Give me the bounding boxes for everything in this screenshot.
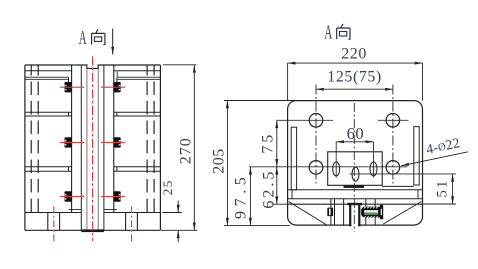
bottom section line 1 xyxy=(382,185,414,187)
top cap lower line xyxy=(25,70,161,72)
center column outer lines xyxy=(72,65,114,213)
svg-text:75: 75 xyxy=(260,132,277,154)
base top line xyxy=(25,212,161,214)
dim 60 line xyxy=(336,141,373,143)
dim 205 extension top xyxy=(224,100,296,102)
dim 125(75) line xyxy=(316,88,393,90)
dim 75 line xyxy=(276,120,278,167)
bolt axis row2 (red) xyxy=(60,141,125,143)
upper clamp plate lines xyxy=(25,77,161,79)
svg-text:A: A xyxy=(324,22,332,43)
green mark right column xyxy=(116,71,118,79)
svg-text:125(75): 125(75) xyxy=(327,68,382,85)
bolt row3 right xyxy=(113,191,120,201)
green mark top xyxy=(74,64,77,66)
bolt row2 left xyxy=(65,137,72,147)
clamp bolt left (small) xyxy=(327,208,333,217)
bottom verticals right xyxy=(366,199,375,225)
base cutout right xyxy=(126,213,138,231)
dim 25 arrow top xyxy=(177,201,179,213)
left view frame right edge xyxy=(159,65,161,230)
bolt row3 left xyxy=(65,191,72,201)
dim 205 line xyxy=(226,101,228,226)
middle rail pair 2 xyxy=(25,167,161,171)
channel slot white gap xyxy=(351,205,358,230)
dim 51 extension bottom xyxy=(423,203,457,205)
dim 205 extension bottom xyxy=(224,225,290,227)
oval slot middle xyxy=(352,167,359,181)
winding dashed lines left block xyxy=(31,65,38,213)
dim 220 line xyxy=(288,62,423,64)
channel right wall (thick) xyxy=(358,205,360,227)
main vertical centerline xyxy=(353,103,355,232)
dim 25 extension xyxy=(162,212,182,214)
rail 2 end ticks xyxy=(69,167,117,171)
hole column centerline right xyxy=(392,85,394,184)
hole circle bottom-right xyxy=(386,161,400,175)
svg-text:62.5: 62.5 xyxy=(261,169,278,209)
dim 62.5 line xyxy=(276,167,278,204)
base cutout left xyxy=(48,213,60,231)
svg-text:97.5: 97.5 xyxy=(233,173,250,219)
bottom verticals left xyxy=(331,199,344,225)
view direction arrow xyxy=(112,29,114,55)
center column core lines xyxy=(87,68,98,230)
oval slot right xyxy=(370,162,377,176)
gusset diagonal left xyxy=(289,202,327,226)
bottom section line 4 xyxy=(288,203,423,205)
hole circle top-right xyxy=(386,114,400,128)
dim 270 extension top xyxy=(163,64,197,66)
leader 4-diam22 xyxy=(401,152,468,166)
bolt row1 left xyxy=(65,82,72,92)
upper clamp end ticks xyxy=(69,77,117,82)
terminal block bottom tab xyxy=(344,185,365,188)
oval centerline right xyxy=(373,142,375,178)
terminal block rectangle xyxy=(328,152,383,186)
bolt axis row1 (red) xyxy=(60,86,125,88)
gusset diagonal right xyxy=(383,202,421,225)
hole circle top-left xyxy=(309,114,323,128)
top cap line xyxy=(25,65,161,68)
svg-text:25: 25 xyxy=(160,179,175,195)
winding dashed lines right block xyxy=(147,65,154,213)
leader text 4-d22 xyxy=(425,136,462,158)
bottom section line 3 xyxy=(288,198,423,200)
hole row2 centerline xyxy=(249,166,408,168)
main centerline (red) xyxy=(92,56,94,241)
channel top bar (thick) xyxy=(347,203,362,205)
dim 220 extension left xyxy=(287,63,289,101)
bolt ledges xyxy=(69,209,117,211)
rail 1 end ticks xyxy=(69,112,117,116)
hole circle bottom-left xyxy=(309,161,323,175)
left slot xyxy=(291,127,296,190)
oval centerline left xyxy=(335,142,337,178)
svg-text:205: 205 xyxy=(211,148,228,174)
bolt row1 right xyxy=(113,82,120,92)
bolt row2 right xyxy=(113,137,120,147)
center column inner lines xyxy=(81,65,104,230)
right slot xyxy=(414,127,419,185)
bolt axis row3 (red) xyxy=(60,196,125,198)
middle rail pair 1 xyxy=(25,112,161,116)
short verticals below slots xyxy=(292,190,418,199)
base bottom line xyxy=(25,229,161,231)
channel left wall (thick) xyxy=(349,205,351,227)
clamp bolt right (green terminal) xyxy=(361,205,383,220)
dim 25 arrow bottom xyxy=(177,230,179,242)
label A向 (left view direction label) xyxy=(79,28,105,49)
dim 270 line xyxy=(193,65,195,231)
hole row1 centerline xyxy=(276,119,408,121)
label A向 (view A title) xyxy=(324,22,350,43)
base cutout centerline left (red) xyxy=(53,206,55,242)
dim 97.5 line xyxy=(249,167,251,226)
middle slot centerline xyxy=(350,173,457,175)
left view frame left edge xyxy=(24,65,26,230)
dim 62.5 extension bottom xyxy=(272,203,289,205)
svg-text:60: 60 xyxy=(347,124,365,143)
dim 220 extension right xyxy=(422,63,424,101)
dim 51 line xyxy=(452,174,454,204)
body outline (rounded) xyxy=(288,101,423,226)
base foot bar under column xyxy=(81,229,104,232)
svg-text:A: A xyxy=(79,28,87,49)
hole column centerline left xyxy=(315,85,317,184)
dim 270 extension bottom xyxy=(161,229,197,231)
svg-text:270: 270 xyxy=(178,137,195,164)
svg-text:51: 51 xyxy=(434,179,450,198)
bottom section line 2 xyxy=(288,189,423,191)
svg-text:220: 220 xyxy=(341,45,367,62)
oval slot left xyxy=(333,162,340,176)
base cutout centerline right (red) xyxy=(131,206,133,242)
